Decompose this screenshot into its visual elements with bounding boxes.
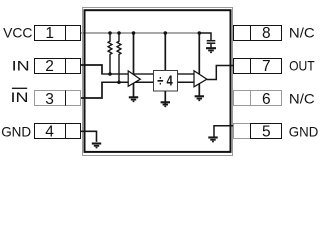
wire VCC drop to buffer A2 bbox=[198, 33, 200, 76]
pin 8 box bbox=[234, 26, 282, 41]
wire from pin 2 IN bbox=[80, 65, 102, 74]
node R1 to input line bbox=[108, 72, 112, 76]
divider U2 box bbox=[154, 71, 178, 92]
buffer A2 output stage bbox=[194, 71, 207, 87]
wire VCC stub to divider U2 bbox=[164, 33, 166, 71]
svg-text:OUT: OUT bbox=[289, 58, 315, 74]
node rail at A2 supply bbox=[198, 31, 202, 35]
ground stem for U2 bbox=[164, 91, 166, 105]
IC body U1 border bbox=[85, 10, 231, 152]
pin 1 box bbox=[35, 26, 81, 41]
ground for C1 bbox=[206, 48, 216, 52]
svg-text:VCC: VCC bbox=[3, 25, 32, 41]
ground at pin 5 bbox=[208, 138, 217, 142]
svg-text:N/C: N/C bbox=[289, 25, 315, 41]
wire VCC drop to buffer A1 bbox=[133, 33, 135, 76]
resistor R2 pull-up bbox=[117, 33, 121, 82]
node rail at R1 bbox=[108, 31, 112, 35]
ground for buffer A2 bbox=[195, 96, 204, 100]
wire pin 5 to ground bbox=[214, 126, 234, 138]
pin 6 box bbox=[234, 91, 282, 106]
ground for U2 bbox=[161, 102, 170, 106]
wire pin 4 to ground bbox=[80, 131, 97, 142]
svg-text:6: 6 bbox=[262, 91, 271, 108]
svg-text:GND: GND bbox=[1, 124, 31, 140]
svg-text:IN: IN bbox=[11, 89, 29, 105]
capacitor C1 decoupling bbox=[207, 41, 216, 48]
wire output to pin 7 bbox=[207, 66, 234, 80]
wire VCC rail from pin 1 bbox=[80, 32, 199, 34]
IC body fill bbox=[84, 10, 232, 153]
wire rail to capacitor bbox=[199, 33, 211, 40]
ground stem for buffer A1 bbox=[133, 82, 135, 97]
wire from pin 3 IN-bar bbox=[80, 82, 102, 98]
pin 5 box bbox=[234, 124, 282, 139]
node rail at A1 supply bbox=[132, 31, 136, 35]
pin 7 box bbox=[234, 59, 282, 74]
node rail at U2 supply bbox=[164, 31, 168, 35]
svg-text:5: 5 bbox=[262, 124, 271, 141]
svg-text:IN: IN bbox=[12, 57, 30, 73]
svg-text:GND: GND bbox=[289, 124, 319, 140]
svg-text:7: 7 bbox=[262, 58, 271, 75]
pin 2 box bbox=[35, 59, 81, 74]
IC outer outline bbox=[83, 8, 233, 156]
buffer A1 input stage bbox=[128, 71, 140, 86]
svg-text:4: 4 bbox=[45, 124, 54, 141]
svg-text:÷ 4: ÷ 4 bbox=[157, 73, 173, 89]
svg-text:1: 1 bbox=[45, 25, 54, 42]
svg-text:N/C: N/C bbox=[289, 91, 315, 107]
node rail at R2 bbox=[117, 31, 121, 35]
ground stem for buffer A2 bbox=[198, 82, 200, 96]
node R2 to input line bbox=[117, 81, 121, 85]
svg-text:8: 8 bbox=[262, 25, 271, 42]
wire signal line complement bbox=[101, 81, 194, 83]
svg-text:3: 3 bbox=[45, 91, 54, 108]
overline for IN-bar bbox=[12, 87, 27, 89]
pin 4 box bbox=[35, 124, 81, 139]
ground for buffer A1 bbox=[129, 97, 138, 101]
wire signal line true bbox=[101, 73, 194, 75]
svg-text:2: 2 bbox=[45, 58, 54, 75]
pin 3 box bbox=[35, 91, 81, 106]
ground at pin 4 bbox=[92, 144, 101, 148]
resistor R1 pull-up bbox=[108, 33, 112, 74]
